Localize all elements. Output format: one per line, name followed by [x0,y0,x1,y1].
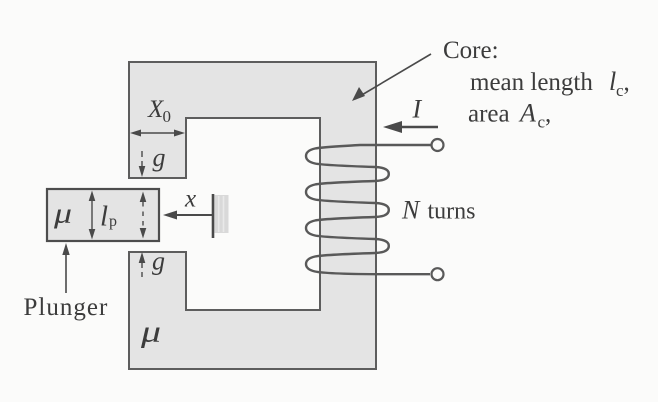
svg-text:g: g [153,143,166,172]
svg-text:area: area [468,101,510,128]
svg-text:,: , [624,69,630,96]
svg-text:Plunger: Plunger [24,294,109,321]
svg-text:μ: μ [140,314,161,349]
svg-text:A: A [518,99,536,128]
svg-text:mean length: mean length [470,69,593,96]
svg-text:g: g [152,247,165,276]
svg-text:Core:: Core: [443,37,499,64]
svg-text:μ: μ [53,198,72,230]
svg-text:p: p [109,213,117,230]
svg-text:0: 0 [163,107,172,126]
svg-text:N: N [401,196,421,225]
svg-text:l: l [100,201,108,233]
svg-text:,: , [545,101,551,128]
svg-text:turns: turns [428,199,476,225]
svg-text:x: x [184,186,196,213]
svg-text:I: I [412,95,423,124]
